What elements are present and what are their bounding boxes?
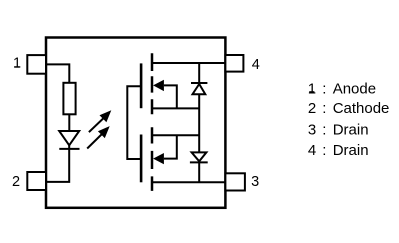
svg-text:3:Drain: 3:Drain bbox=[308, 122, 369, 139]
svg-text:4:Drain: 4:Drain bbox=[308, 142, 369, 159]
svg-text:2:Cathode: 2:Cathode bbox=[308, 100, 390, 117]
svg-text:1:Anode: 1:Anode bbox=[308, 80, 376, 97]
svg-text:4: 4 bbox=[252, 57, 260, 73]
svg-text:3: 3 bbox=[251, 174, 259, 190]
svg-text:2: 2 bbox=[12, 174, 20, 190]
svg-text:1: 1 bbox=[13, 56, 21, 72]
